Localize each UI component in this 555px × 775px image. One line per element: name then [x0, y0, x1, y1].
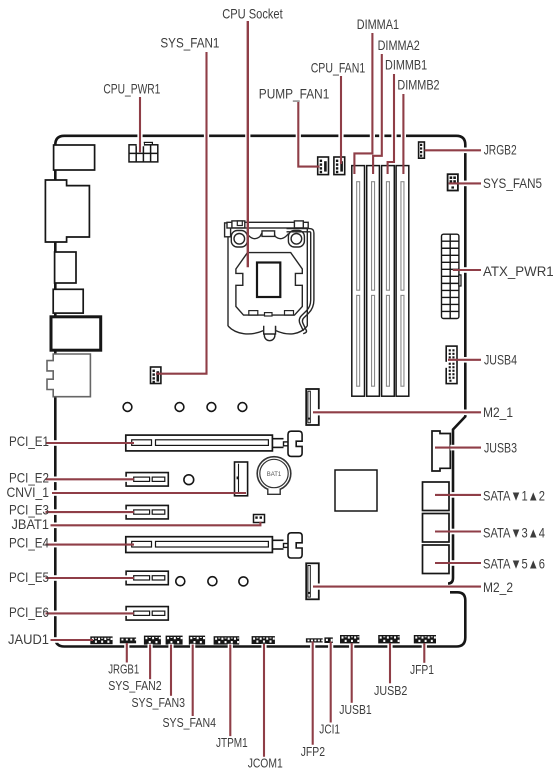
svg-text:SYS_FAN2: SYS_FAN2 — [108, 678, 162, 693]
svg-text:M2_1: M2_1 — [483, 404, 513, 420]
svg-text:CPU_FAN1: CPU_FAN1 — [311, 59, 366, 75]
svg-text:M2_2: M2_2 — [483, 579, 513, 595]
svg-text:SYS_FAN1: SYS_FAN1 — [160, 35, 219, 51]
svg-text:SYS_FAN4: SYS_FAN4 — [163, 715, 217, 730]
svg-text:SATA▼1▲2: SATA▼1▲2 — [483, 488, 545, 504]
svg-text:JUSB2: JUSB2 — [374, 683, 407, 698]
svg-text:JFP1: JFP1 — [410, 662, 434, 677]
svg-text:BAT1: BAT1 — [267, 472, 282, 478]
svg-text:ATX_PWR1: ATX_PWR1 — [483, 263, 554, 279]
svg-text:PUMP_FAN1: PUMP_FAN1 — [259, 85, 330, 101]
svg-text:CNVI_1: CNVI_1 — [7, 484, 50, 500]
svg-text:PCI_E1: PCI_E1 — [9, 433, 49, 449]
svg-text:JTPM1: JTPM1 — [216, 735, 248, 750]
svg-text:JCOM1: JCOM1 — [248, 756, 283, 771]
svg-text:JRGB1: JRGB1 — [108, 662, 139, 677]
svg-text:DIMMA2: DIMMA2 — [378, 37, 420, 53]
svg-text:JCI1: JCI1 — [319, 722, 340, 737]
svg-text:DIMMB1: DIMMB1 — [385, 57, 427, 73]
svg-text:JUSB4: JUSB4 — [484, 352, 517, 368]
svg-text:SATA▼3▲4: SATA▼3▲4 — [483, 524, 545, 540]
svg-text:SYS_FAN5: SYS_FAN5 — [483, 175, 542, 191]
svg-text:JAUD1: JAUD1 — [8, 631, 49, 647]
svg-text:JRGB2: JRGB2 — [484, 141, 517, 157]
svg-text:DIMMA1: DIMMA1 — [357, 16, 399, 32]
svg-text:SYS_FAN3: SYS_FAN3 — [132, 695, 186, 710]
svg-text:DIMMB2: DIMMB2 — [397, 76, 439, 92]
svg-text:JUSB3: JUSB3 — [484, 440, 517, 456]
svg-text:PCI_E6: PCI_E6 — [9, 604, 49, 620]
svg-text:CPU Socket: CPU Socket — [222, 6, 283, 22]
svg-text:CPU_PWR1: CPU_PWR1 — [103, 80, 160, 96]
svg-text:PCI_E4: PCI_E4 — [9, 535, 49, 551]
svg-text:JFP2: JFP2 — [301, 744, 325, 759]
svg-text:SATA▼5▲6: SATA▼5▲6 — [483, 556, 545, 572]
svg-text:JUSB1: JUSB1 — [339, 702, 371, 717]
svg-text:PCI_E5: PCI_E5 — [9, 569, 49, 585]
svg-text:JBAT1: JBAT1 — [12, 516, 50, 532]
